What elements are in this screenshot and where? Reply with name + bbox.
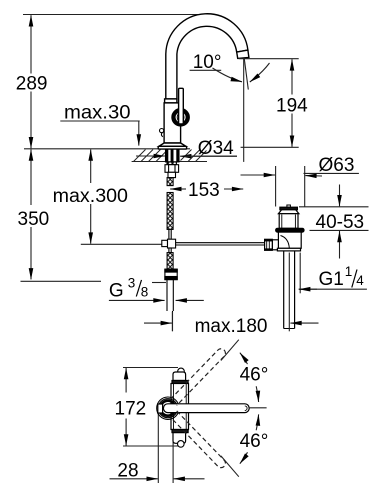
svg-text:172: 172	[115, 399, 147, 420]
svg-text:1: 1	[345, 264, 353, 279]
svg-text:194: 194	[276, 96, 308, 117]
svg-text:289: 289	[16, 74, 48, 95]
svg-text:8: 8	[141, 285, 149, 300]
svg-text:max.300: max.300	[53, 186, 128, 207]
svg-text:350: 350	[18, 209, 50, 230]
svg-text:40-53: 40-53	[316, 212, 365, 233]
svg-text:28: 28	[117, 460, 138, 481]
svg-text:46°: 46°	[240, 431, 269, 452]
svg-text:max.30: max.30	[64, 103, 131, 124]
svg-text:G: G	[109, 281, 124, 302]
svg-text:153: 153	[188, 180, 220, 201]
svg-text:4: 4	[356, 273, 364, 288]
svg-text:Ø63: Ø63	[319, 155, 355, 176]
svg-text:max.180: max.180	[195, 316, 268, 337]
svg-text:46°: 46°	[240, 365, 269, 386]
svg-text:3: 3	[128, 275, 136, 290]
svg-text:G1: G1	[319, 269, 344, 290]
